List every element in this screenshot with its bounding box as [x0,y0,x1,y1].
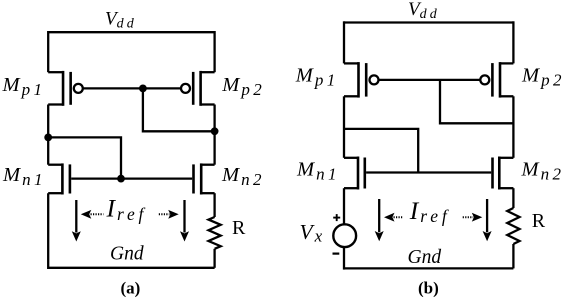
svg-text:Mn1: Mn1 [2,164,46,189]
wire PMOS gate line (b) [379,79,481,81]
wire Gnd bottom rail (b) [344,267,513,269]
wire right rail middle (a): Mp2 drain to Mn2 drain [213,105,215,165]
node Mn1 drain junction (a) [44,134,52,142]
node NMOS gate junction (a) [117,175,125,183]
svg-text:Mn2: Mn2 [221,164,265,189]
wire left rail upper (a): Vdd to Mp1 source [47,31,49,72]
wire right rail middle (b): Mp2 drain to Mn2 drain [512,96,514,158]
resistor R (b) [507,208,519,244]
wire Vdd top rail (b) [344,21,513,23]
wire gate junction down to Mp2 drain (a) [143,88,215,131]
minus sign of Vx [333,253,340,255]
svg-text:R: R [232,217,246,239]
dashed arrow right (a) [159,210,179,219]
svg-text:Vdd: Vdd [105,9,137,32]
svg-text:Iref: Iref [106,194,148,224]
svg-text:Vdd: Vdd [408,0,440,22]
wire Mn1 diode connection (a) [48,137,121,178]
wire left rail lower (a): Mn1 source to Gnd [47,193,49,269]
wire left rail middle (a): Mp1 drain to Mn1 drain [47,105,49,165]
wire resistor to Gnd (b) [512,244,514,268]
node Mp2 drain junction (a) [211,127,219,135]
wire Vx to Gnd (b) [343,247,345,270]
svg-text:Vx: Vx [300,220,323,245]
transistor Mp1 (b) [344,62,379,98]
transistor Mp1 [48,71,83,106]
wire Mn1 source down to Vx (b) [343,188,345,224]
resistor R (a) [209,217,221,249]
current arrow Iref left (a) [72,200,81,242]
svg-text:Mp2: Mp2 [221,74,265,99]
svg-text:Mp1: Mp1 [2,74,46,99]
svg-text:Iref: Iref [409,196,451,226]
svg-text:Mn2: Mn2 [521,158,565,183]
svg-text:(a): (a) [121,279,141,298]
dashed arrow left (a) [81,210,104,219]
svg-text:Mn1: Mn1 [296,158,340,183]
wire Vdd top rail (a) [48,31,214,33]
transistor Mp2 (b) [480,62,513,98]
wire PMOS gate line (a) [83,87,181,89]
transistor Mn1 (b) [344,157,365,190]
svg-text:Gnd: Gnd [408,247,442,268]
wire Gnd bottom rail (a) [48,267,214,269]
svg-text:Mp1: Mp1 [295,65,339,90]
wire right rail upper (b): Vdd to Mp2 source [512,21,514,63]
wire gate tap to Mp2 drain feedback (b) [440,80,513,123]
transistor Mn2 (b) [493,157,514,190]
svg-text:R: R [532,210,546,232]
transistor Mn1 [48,163,70,194]
svg-text:Gnd: Gnd [110,244,144,265]
wire left rail middle (b): Mp1 drain to Mn1 drain [343,96,345,158]
transistor Mp2 [181,71,215,106]
wire NMOS gate line (a) [71,177,192,179]
wire NMOS gate line (b) [366,171,491,173]
wire Mn1 diode connection (b) [344,129,418,173]
wire resistor to Gnd (a) [213,249,215,268]
current arrow Iref right (a) [180,200,189,242]
dashed arrow left (b) [384,213,404,222]
plus sign of Vx [333,214,340,221]
voltage source Vx [333,224,356,247]
svg-text:Mp2: Mp2 [521,65,565,90]
current arrow Iref right (b) [483,199,492,241]
dashed arrow right (b) [463,213,483,222]
wire right rail upper (a): Vdd to Mp2 source [213,31,215,72]
wire Mn2 source to resistor (b) [512,188,514,208]
wire left rail upper (b): Vdd to Mp1 source [343,21,345,63]
svg-text:(b): (b) [418,279,439,298]
node gate-line junction (a) [139,84,147,92]
wire Mn2 source to resistor (a) [213,193,215,217]
transistor Mn2 [194,163,215,194]
current arrow Iref left (b) [375,199,384,241]
